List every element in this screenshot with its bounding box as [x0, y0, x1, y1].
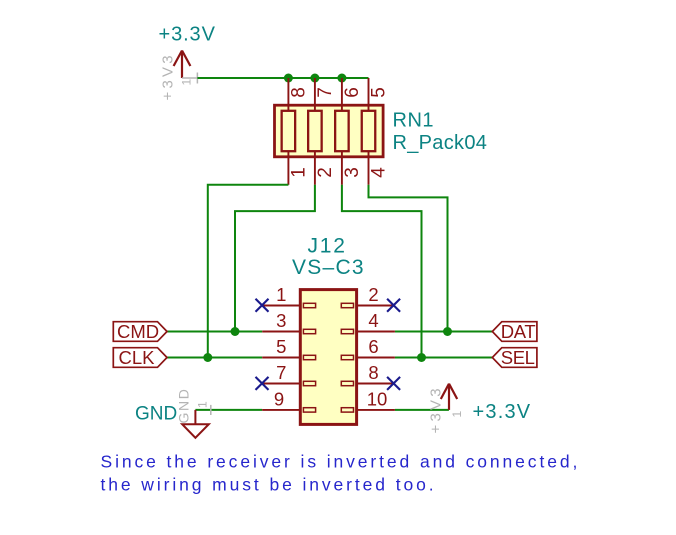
junction at RN1 pin 6 [337, 74, 346, 83]
svg-text:VS–C3: VS–C3 [292, 256, 365, 279]
svg-text:CMD: CMD [117, 321, 159, 342]
svg-text:7: 7 [276, 362, 286, 383]
svg-text:7: 7 [315, 87, 336, 98]
global label CLK [113, 348, 167, 368]
J12 pin 10 [357, 409, 395, 411]
wire: RN1 pin2 to CMD net [235, 185, 315, 332]
wire: RN1 pin4 to DAT net [369, 185, 448, 332]
no-connect pin 2 [387, 299, 400, 312]
junction RN1 pin2 / CMD row [231, 327, 240, 336]
resistor RN1 element D [362, 111, 376, 151]
wire: CLK label to J12 pin 5 [167, 357, 262, 359]
J12 pin sockets (right) [341, 303, 353, 412]
J12 pin 6 [357, 357, 395, 359]
svg-text:10: 10 [367, 388, 388, 409]
svg-text:9: 9 [274, 388, 284, 409]
J12 pin 8 [357, 383, 395, 385]
svg-text:5: 5 [369, 87, 390, 98]
svg-text:CLK: CLK [119, 347, 156, 368]
junction RN1 pin3 / SEL row [417, 353, 426, 362]
J12 pin 3 [262, 331, 300, 333]
wire: J12 pin 4 to DAT label [395, 331, 492, 333]
RN1 pin 4 [368, 151, 370, 185]
RN1 pin 8 [287, 78, 289, 111]
resistor RN1 element C [335, 111, 349, 151]
svg-text:J12: J12 [308, 235, 347, 258]
connector J12 body [300, 290, 356, 425]
wire: J12 pin 9 to GND [195, 409, 262, 411]
svg-text:5: 5 [276, 336, 286, 357]
ground symbol [182, 410, 209, 438]
svg-text:1: 1 [450, 411, 464, 418]
svg-text:+3.3V: +3.3V [473, 401, 532, 423]
resistor RN1 element B [308, 111, 322, 151]
global label SEL [492, 348, 537, 368]
svg-text:GND: GND [176, 388, 192, 424]
junction at RN1 pin 8 [284, 74, 293, 83]
svg-text:the wiring must be inverted to: the wiring must be inverted too. [101, 474, 437, 494]
hidden GND pin marks (gray) [210, 405, 212, 415]
global label CMD [113, 322, 167, 342]
J12 pin 2 [357, 305, 395, 307]
svg-text:6: 6 [368, 336, 378, 357]
svg-text:3: 3 [276, 310, 286, 331]
junction RN1 pin4 / DAT row [443, 327, 452, 336]
svg-text:SEL: SEL [501, 347, 535, 368]
J12 pin 4 [357, 331, 395, 333]
svg-text:4: 4 [368, 310, 378, 331]
RN1 pin 2 [314, 151, 316, 185]
no-connect pin 1 [256, 299, 269, 312]
global label DAT [492, 322, 537, 342]
svg-text:6: 6 [342, 87, 363, 98]
J12 pin 5 [262, 357, 300, 359]
svg-text:8: 8 [288, 87, 309, 98]
wire: RN1 pin1 to CLK net [208, 185, 289, 358]
svg-text:+3.3V: +3.3V [159, 24, 216, 46]
J12 pin 9 [262, 409, 300, 411]
svg-text:GND: GND [135, 404, 177, 425]
svg-text:DAT: DAT [501, 321, 536, 342]
RN1 pin 6 [341, 78, 343, 111]
svg-text:1: 1 [288, 167, 309, 178]
svg-text:8: 8 [368, 362, 378, 383]
RN1 pin 7 [314, 78, 316, 111]
svg-text:4: 4 [369, 167, 390, 178]
hidden power pin 1 (top, gray) [182, 73, 197, 84]
svg-text:+3V3: +3V3 [428, 385, 445, 433]
svg-text:R_Pack04: R_Pack04 [393, 132, 488, 154]
wire: J12 pin 10 to +3.3V [395, 409, 449, 411]
no-connect pin 8 [387, 377, 400, 390]
svg-text:1: 1 [276, 284, 286, 305]
wire: J12 pin 6 to SEL label [395, 357, 492, 359]
resistor RN1 element A [282, 111, 296, 151]
resistor pack RN1 body [275, 105, 384, 157]
J12 pin 7 [262, 383, 300, 385]
svg-text:3: 3 [342, 167, 363, 178]
svg-text:2: 2 [315, 167, 336, 178]
wire: RN1 pin3 to SEL net [342, 185, 422, 358]
svg-text:+3V3: +3V3 [160, 52, 177, 100]
no-connect pin 7 [256, 377, 269, 390]
svg-text:RN1: RN1 [393, 110, 435, 132]
junction at RN1 pin 7 [310, 74, 319, 83]
svg-text:1: 1 [196, 401, 210, 408]
J12 pin 1 [262, 305, 300, 307]
wire: CMD label to J12 pin 3 [167, 331, 262, 333]
power symbol +3V3 PWR (top) [174, 51, 191, 79]
RN1 pin 1 [287, 151, 289, 185]
svg-text:1: 1 [180, 79, 194, 86]
svg-text:2: 2 [368, 284, 378, 305]
RN1 pin 3 [341, 151, 343, 185]
junction RN1 pin1 / CLK row [203, 353, 212, 362]
J12 pin sockets (left) [303, 303, 315, 412]
power symbol +3V3 (bottom right) [441, 384, 457, 410]
RN1 pin 5 [368, 78, 370, 111]
svg-text:Since the receiver is inverted: Since the receiver is inverted and conne… [101, 451, 581, 471]
wire: +3.3V rail to RN1 pin 5 [197, 77, 368, 79]
